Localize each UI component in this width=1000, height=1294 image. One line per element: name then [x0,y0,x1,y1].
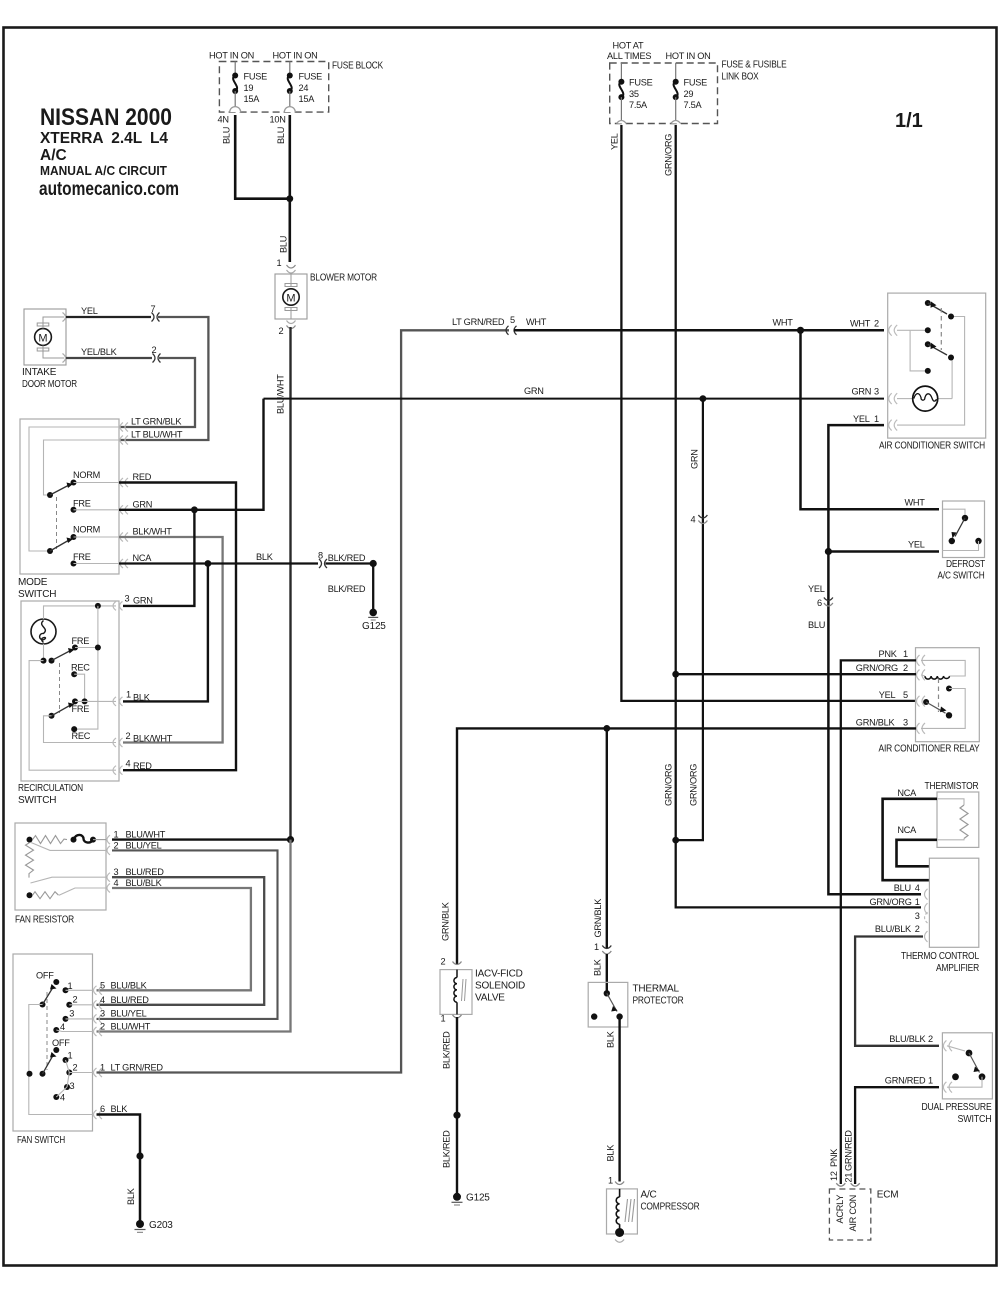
dual pressure pin chevrons [943,1040,952,1092]
ground G203 [136,1220,144,1228]
svg-text:GRN/RED: GRN/RED [885,1076,926,1086]
mech link dashed (recirc) [59,663,61,713]
svg-text:HOT IN ON: HOT IN ON [666,51,711,61]
svg-text:RECIRCULATION: RECIRCULATION [18,783,83,794]
contact NORM (lower) [71,534,77,540]
wire GRN/BLK down to thermal protector connector [606,728,608,948]
svg-text:1: 1 [100,1063,105,1073]
svg-text:PROTECTOR: PROTECTOR [633,996,684,1007]
svg-text:BLK: BLK [126,1187,136,1205]
FAN SWITCH box [13,954,93,1131]
solenoid valve box [440,970,472,1015]
recirc lamp symbol [31,619,56,644]
svg-text:BLK/RED: BLK/RED [442,1031,452,1069]
svg-text:4: 4 [60,1093,65,1103]
connector at fusible box exit (fuse 29) [671,121,681,124]
svg-text:29: 29 [684,89,694,99]
svg-text:7: 7 [151,304,156,314]
wire BLU/WHT junction down to fan switch pin2 [97,840,291,1032]
svg-text:GRN: GRN [133,500,153,510]
svg-text:BLK: BLK [606,1030,616,1048]
INTAKE DOOR MOTOR box [24,309,66,365]
wire BLK protector to compressor [618,1017,620,1182]
upper switch common + blade [49,658,55,664]
wire BLU/BLK resistor pin4 to fan switch pin5 [97,888,251,990]
svg-text:DOOR MOTOR: DOOR MOTOR [22,379,77,390]
svg-text:GRN/ORG: GRN/ORG [664,134,674,176]
svg-text:BLU/YEL: BLU/YEL [111,1009,147,1019]
svg-text:1/1: 1/1 [895,110,923,132]
svg-text:YEL: YEL [808,584,825,594]
wire NCA/BLK from mode switch to connector 8 [119,562,318,564]
svg-text:BLU/BLK: BLU/BLK [889,1034,926,1044]
svg-text:OFF: OFF [36,971,54,981]
svg-text:IACV-FICD: IACV-FICD [475,969,523,980]
A/C switch internals [897,317,965,426]
svg-text:12: 12 [829,1171,839,1181]
svg-text:SOLENOID: SOLENOID [475,981,525,992]
svg-text:AIR CONDITIONER RELAY: AIR CONDITIONER RELAY [879,744,980,755]
svg-text:1: 1 [68,1051,73,1061]
junction dot GRN/BLK to thermal protector [603,725,610,732]
common to pin2 route [44,716,117,743]
resistor zigzag vertical (left) [26,843,34,878]
svg-text:6: 6 [100,1104,105,1114]
mechanical link dashed (mode switch) [56,497,58,549]
svg-text:M: M [286,293,295,305]
connector 4N (half-circle at fuse block exit) [230,107,241,112]
recirc pin 3 GRN wire up to GRN junction [123,510,194,606]
lower REC contact [71,726,77,732]
ECM entry connectors [836,1183,845,1186]
upper REC contact [71,671,77,677]
wire GRN down to connector 4 then GRN/ORG to merge junction [676,399,703,840]
svg-text:BLK: BLK [111,1104,129,1114]
wire WHT from connector 5 to A/C switch pin 2 [514,329,884,332]
wire BLK/RED down to ground G125 [372,564,374,612]
svg-text:3: 3 [915,911,920,921]
svg-text:NCA: NCA [897,788,917,798]
THERMO CONTROL AMPLIFIER box [929,858,978,947]
svg-text:3: 3 [114,867,119,877]
svg-text:YEL: YEL [610,133,620,150]
wire YEL from intake door motor to connector 7 then to x208 down to LT BLU/WHT [66,316,151,318]
svg-text:1: 1 [114,830,119,840]
intake door motor M symbol [35,317,64,358]
recirc pin chevrons [113,601,123,774]
svg-text:BLU/BLK: BLU/BLK [126,878,163,888]
compressor ground dot [615,1228,624,1237]
mode switch internal routing LT BLU/WHT to upper common [44,440,120,495]
svg-text:1: 1 [608,1176,613,1186]
svg-text:2: 2 [441,957,446,967]
thermal protector contacts [604,990,610,996]
svg-text:DUAL PRESSURE: DUAL PRESSURE [922,1102,992,1113]
svg-text:G125: G125 [362,621,386,632]
svg-text:2: 2 [928,1034,933,1044]
svg-text:SWITCH: SWITCH [958,1114,992,1125]
wire BLK connector to thermal protector box [606,954,608,993]
svg-text:YEL: YEL [81,306,98,316]
svg-text:BLK: BLK [606,1144,616,1162]
wire BLU/WHT blower pin2 down to fan resistor junction [289,327,291,840]
svg-text:2: 2 [152,345,157,355]
svg-text:BLU/RED: BLU/RED [111,995,150,1005]
svg-text:FUSE: FUSE [244,72,268,82]
svg-text:G125: G125 [466,1193,490,1204]
fan resistor pin chevrons [107,835,110,892]
svg-text:NORM: NORM [73,470,100,480]
splice dot BLK/RED [370,560,377,567]
svg-text:GRN/ORG: GRN/ORG [870,897,912,907]
svg-text:LT GRN/BLK: LT GRN/BLK [131,417,182,427]
svg-text:FRE: FRE [72,636,90,646]
svg-text:GRN/BLK: GRN/BLK [441,901,451,941]
svg-text:GRN/ORG: GRN/ORG [664,764,674,806]
AIR CONDITIONER SWITCH box [888,293,986,438]
svg-text:THERMISTOR: THERMISTOR [925,781,979,792]
contact NORM (upper) [71,480,77,486]
lamp bottom to common [43,644,45,661]
svg-text:15A: 15A [299,94,316,104]
svg-text:PNK: PNK [879,649,898,659]
junction dot BLU/WHT [287,836,294,843]
svg-text:FAN SWITCH: FAN SWITCH [17,1135,65,1146]
THERMAL PROTECTOR box [588,982,628,1027]
svg-text:WHT: WHT [773,318,794,328]
svg-text:2: 2 [100,1022,105,1032]
svg-text:GRN/ORG: GRN/ORG [689,764,699,806]
svg-text:GRN/ORG: GRN/ORG [856,663,898,673]
svg-text:WHT: WHT [850,319,871,329]
wire BLU/RED resistor pin3 to fan switch pin4 [97,877,265,1005]
svg-text:GRN/BLK: GRN/BLK [593,898,603,938]
fuse 35 7.5A symbol [618,63,652,124]
svg-text:BLK/RED: BLK/RED [442,1130,452,1168]
wire LT GRN/RED fan switch pin1 up to connector 5 [97,330,510,1072]
svg-text:WHT: WHT [526,317,547,327]
wire NCA upper: thermistor to amp [883,799,937,880]
contact FRE (upper) [71,507,77,513]
svg-text:BLK: BLK [256,552,274,562]
ECM dashed box [829,1189,870,1240]
mode switch lower section: common + blade to NORM [47,548,53,554]
svg-text:4N: 4N [218,115,229,125]
svg-text:BLU: BLU [222,127,232,144]
svg-text:FUSE: FUSE [629,78,653,88]
svg-text:2: 2 [73,995,78,1005]
svg-text:1: 1 [441,1014,446,1024]
upper FRE contact + line [72,645,78,651]
wire RED from mode switch NORM down to recirc pin4 [119,483,236,771]
bottom contact dot [925,368,931,374]
svg-text:SWITCH: SWITCH [18,589,56,600]
wire BLK down to recirc pin1 [123,564,208,702]
wire YEL from A/C switch pin1 left and down [828,425,921,894]
wire BLU from fuse 19 down then right [235,115,287,199]
bottom node [27,892,33,898]
svg-text:PNK: PNK [829,1148,839,1167]
svg-text:3: 3 [70,1081,75,1091]
junction dot on pin3 line [95,603,101,609]
junction dot NCA/BLK to recirc pin1 [205,560,212,567]
svg-text:BLU: BLU [808,620,825,630]
svg-text:3: 3 [69,1009,74,1019]
svg-text:COMPRESSOR: COMPRESSOR [641,1202,700,1213]
svg-text:BLK/RED: BLK/RED [328,584,366,594]
svg-text:FRE: FRE [73,552,91,562]
svg-text:3: 3 [100,1009,105,1019]
wire YEL from fuse 35 down, turn right at y701 to relay pin5 [621,125,916,701]
svg-text:VALVE: VALVE [475,993,505,1004]
svg-text:NORM: NORM [73,525,100,535]
svg-text:4: 4 [126,759,131,769]
relay switch [923,699,929,705]
internal lead to pin3 [31,877,107,883]
lower switch blade + contacts [925,341,931,347]
recirc internal: top line lamp to pin3 [44,606,117,619]
svg-text:THERMO CONTROL: THERMO CONTROL [901,951,980,962]
svg-text:LINK BOX: LINK BOX [722,72,759,83]
svg-text:A/C SWITCH: A/C SWITCH [938,571,985,582]
wire GRN/ORG to relay pin 2 [676,673,916,675]
wire NCA lower: thermistor to amp [897,840,938,867]
wire GRN/ORG from fuse 29 down to thermo amp pin1 [676,125,921,907]
svg-text:WHT: WHT [905,498,926,508]
lamp common to pin4 route [29,661,116,771]
title block [39,104,179,200]
wire PNK relay pin1 to ECM pin 12 [841,660,916,1184]
svg-text:2: 2 [874,319,879,329]
svg-text:A/C: A/C [641,1190,657,1201]
svg-text:A/C: A/C [40,147,67,164]
svg-text:RED: RED [133,472,152,482]
resistor zigzag horizontal (bottom) [33,892,59,899]
thermistor resistor zigzag [937,799,968,840]
THERMISTOR box [937,792,979,847]
svg-text:YEL: YEL [853,414,870,424]
svg-text:MANUAL A/C CIRCUIT: MANUAL A/C CIRCUIT [40,164,167,178]
svg-text:7.5A: 7.5A [684,100,703,110]
svg-text:BLU: BLU [894,883,911,893]
svg-text:BLU: BLU [276,127,286,144]
svg-text:2: 2 [903,663,908,673]
FUSE & FUSIBLE LINK BOX (dashed) [610,63,718,124]
svg-text:ALL TIMES: ALL TIMES [607,51,651,61]
mech link dashed (A/C switch) [940,308,942,350]
svg-text:5: 5 [510,315,515,325]
svg-text:FAN RESISTOR: FAN RESISTOR [15,915,74,926]
svg-text:RED: RED [133,761,152,771]
svg-text:4: 4 [114,878,119,888]
svg-text:BLU/YEL: BLU/YEL [126,840,162,850]
relay mech link dashed [938,679,940,713]
svg-text:BLU/RED: BLU/RED [126,867,165,877]
solenoid coil [456,970,458,978]
splice dot BLK/RED [453,1112,460,1119]
svg-text:BLK/WHT: BLK/WHT [133,734,173,744]
svg-text:HOT IN ON: HOT IN ON [209,51,254,61]
svg-text:AIR CON: AIR CON [848,1195,858,1232]
relay pin chevrons [917,655,926,734]
svg-text:BLU/BLK: BLU/BLK [875,924,912,934]
svg-text:1: 1 [594,942,599,952]
svg-text:BLU/BLK: BLU/BLK [111,981,148,991]
svg-text:5: 5 [100,981,105,991]
svg-text:3: 3 [903,718,908,728]
wire BLK fan switch pin6 to ground G203 [97,1115,141,1224]
wire WHT down to defrost switch [801,330,940,509]
svg-text:NISSAN 2000: NISSAN 2000 [40,104,172,131]
svg-text:GRN/BLK: GRN/BLK [856,718,896,728]
svg-text:NCA: NCA [133,553,153,563]
svg-text:2: 2 [73,1063,78,1073]
FUSE BLOCK (dashed box top-left) [219,62,328,113]
splice dot BLK [136,1152,143,1159]
fusible link thick S with end dots [71,837,77,843]
svg-text:OFF: OFF [52,1038,70,1048]
svg-text:BLU/WHT: BLU/WHT [111,1022,151,1032]
svg-text:FUSE: FUSE [684,78,708,88]
svg-text:1: 1 [903,649,908,659]
junction dot WHT branch to defrost [797,327,804,334]
FAN RESISTOR box [15,823,106,910]
wire BLU/YEL resistor pin2 to fan switch pin3 [97,850,278,1019]
defrost internals [943,509,966,514]
connector at fusible box exit (fuse 35) [616,121,626,124]
BLOWER MOTOR box [275,274,307,319]
DEFROST A/C SWITCH box [943,501,985,558]
connector 10N [284,107,295,112]
svg-text:19: 19 [244,83,254,93]
svg-text:HOT IN ON: HOT IN ON [273,51,318,61]
svg-text:BLU: BLU [279,236,289,253]
svg-text:8: 8 [318,551,323,561]
svg-text:2: 2 [915,924,920,934]
svg-text:GRN: GRN [690,449,700,469]
wire BLU/WHT resistor pin1 to junction [112,838,291,840]
compressor coil [619,1189,621,1197]
svg-text:AIR CONDITIONER SWITCH: AIR CONDITIONER SWITCH [879,441,985,452]
svg-text:AMPLIFIER: AMPLIFIER [936,963,979,974]
upper switch blade + contacts [925,300,931,306]
mech link dashed (fan switch) [46,992,48,1070]
svg-text:LT GRN/RED: LT GRN/RED [111,1063,164,1073]
pin connector (intake YEL) [63,313,66,322]
junction dot GRN / recirc pin3 [191,506,198,513]
svg-text:DEFROST: DEFROST [946,559,985,570]
relay coil [925,676,950,679]
svg-text:FRE: FRE [72,704,90,714]
fan switch pin chevrons [94,986,103,1119]
svg-text:1: 1 [915,897,920,907]
svg-text:24: 24 [299,83,309,93]
svg-text:GRN: GRN [133,596,153,606]
svg-text:XTERRA 2.4L L4: XTERRA 2.4L L4 [40,130,168,147]
svg-text:2: 2 [114,840,119,850]
blower motor M symbol [283,274,299,319]
wire GRN main run to A/C switch pin 3 [264,398,885,400]
svg-text:7.5A: 7.5A [629,100,648,110]
svg-text:2: 2 [126,731,131,741]
svg-text:GRN: GRN [852,387,872,397]
fan resistor internals: top node [27,837,33,843]
svg-text:ACRLY: ACRLY [835,1195,845,1224]
ground G125 (left) [369,609,377,617]
internal lead to pin4 [59,888,106,895]
svg-text:FUSE BLOCK: FUSE BLOCK [332,61,383,72]
svg-text:BLU/WHT: BLU/WHT [276,374,286,414]
wire GRN from mode switch FRE right then up to main GRN run [119,399,264,510]
svg-text:BLK/RED: BLK/RED [328,553,366,563]
svg-text:1: 1 [126,690,131,700]
svg-text:1: 1 [68,981,73,991]
vertical from pin3 line to FRE contact and lower REC [77,606,98,729]
svg-text:4: 4 [691,515,696,525]
RECIRCULATION SWITCH box [21,601,119,781]
svg-text:1: 1 [928,1076,933,1086]
svg-text:THERMAL: THERMAL [633,984,680,995]
svg-text:FRE: FRE [73,499,91,509]
mode switch pin chevrons [120,423,128,569]
wire BLK/RED connector8 to splice [326,562,374,564]
svg-text:21: 21 [843,1173,853,1183]
A/C COMPRESSOR box [607,1189,638,1234]
svg-text:6: 6 [817,598,822,608]
fuse 24 15A symbol [287,62,322,109]
svg-text:MODE: MODE [18,577,48,588]
dual pressure contacts [947,1046,965,1051]
internal lead to pin2 [31,843,106,851]
svg-text:FUSE: FUSE [299,72,323,82]
amp pin chevrons [925,889,928,942]
svg-text:4: 4 [915,883,920,893]
svg-text:YEL: YEL [879,690,896,700]
pin2 contact dot [925,327,931,333]
svg-text:GRN: GRN [524,386,544,396]
mode switch upper section: common + blade to NORM [47,492,53,498]
svg-text:4: 4 [100,995,105,1005]
svg-text:2: 2 [279,326,284,336]
svg-text:NCA: NCA [897,825,917,835]
junction dot GRN/ORG at relay pin2 branch [672,671,679,678]
common rail to left [29,1005,93,1115]
wire BLU/BLK amp pin2 to dual pressure switch [855,937,939,1046]
svg-text:10N: 10N [270,115,286,125]
svg-text:LT GRN/RED: LT GRN/RED [452,317,505,327]
svg-text:15A: 15A [244,94,261,104]
svg-text:ECM: ECM [877,1190,899,1201]
resistor zigzag horizontal (top) [33,836,68,844]
fuse 19 15A symbol [232,62,267,109]
svg-text:LT BLU/WHT: LT BLU/WHT [131,430,183,440]
svg-text:SWITCH: SWITCH [18,795,56,806]
fuse 29 7.5A symbol [673,63,707,124]
DUAL PRESSURE SWITCH box [942,1033,992,1099]
mode switch internal routing LT GRN/BLK to lower common [29,427,119,551]
MODE SWITCH box [20,419,119,574]
svg-text:FUSE & FUSIBLE: FUSE & FUSIBLE [722,60,787,71]
A/C switch lamp [913,386,938,411]
svg-text:YEL/BLK: YEL/BLK [81,347,118,357]
svg-text:1: 1 [874,414,879,424]
junction dot GRN/ORG merge at y840 [672,837,679,844]
ground G125 (center) [453,1193,461,1201]
junction dot GRN branch down [700,395,707,402]
svg-text:BLK/WHT: BLK/WHT [133,527,173,537]
svg-text:YEL: YEL [908,540,925,550]
AIR CONDITIONER RELAY box [916,648,980,742]
